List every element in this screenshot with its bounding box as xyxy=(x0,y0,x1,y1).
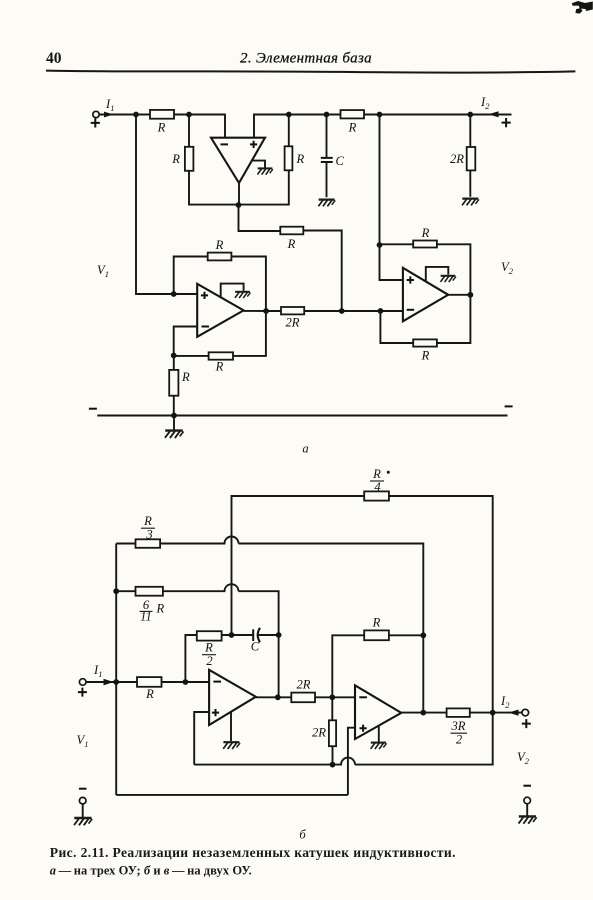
svg-text:R: R xyxy=(156,602,165,616)
wire: U5 + input down to V1 rail (crosses sense line) xyxy=(348,728,355,795)
node: U1 output junction xyxy=(236,202,242,208)
svg-text:R: R xyxy=(215,238,224,252)
node: U5 output junction xyxy=(420,710,426,716)
terminal I2 (circle) xyxy=(522,709,529,716)
svg-text:R: R xyxy=(181,370,190,384)
svg-text:C: C xyxy=(251,640,260,654)
svg-text:R: R xyxy=(372,616,381,630)
wire: U2 positive feedback branch (up and over) xyxy=(174,257,208,295)
svg-text:3R: 3R xyxy=(451,719,466,733)
U1 non-inverting input mark xyxy=(250,141,257,148)
wire: top feedback R to U3 output xyxy=(437,244,471,294)
wire: U4 output to 2R xyxy=(256,696,291,698)
resistor R/4 (horizontal) xyxy=(364,491,389,500)
ground (capacitor C) xyxy=(318,200,335,207)
wire: top-left rail from I1 to op-amp U1 inverting riser xyxy=(99,115,225,139)
node: U3 + feedback junction xyxy=(377,242,383,248)
node: junction I1 / left rail xyxy=(113,679,119,685)
plus sign at I2 xyxy=(502,118,511,127)
node: junction x=288.8 xyxy=(286,112,292,118)
wire: bottom feedback R to U2 output xyxy=(233,311,266,356)
resistor 2R (between U2 and U3) xyxy=(281,307,304,314)
node: bottom rail junction xyxy=(171,413,177,419)
svg-text:2R: 2R xyxy=(286,316,300,330)
current arrow I2 (pointing left) xyxy=(509,710,519,716)
wire: right reference ground stem xyxy=(526,804,528,816)
resistor R (right vertical leg of U1) xyxy=(239,115,293,205)
wire: U4 ground stem xyxy=(230,712,232,741)
wire: right top rail segment from U1 + riser to I2 xyxy=(254,115,512,139)
node: junction feedback R / R-3 branch xyxy=(420,632,426,638)
resistor R/2 (horizontal) xyxy=(197,631,222,640)
resistor 3R/2 (horizontal) xyxy=(447,708,470,717)
resistor 2R (top right, vertical to ground) xyxy=(467,115,476,197)
wire: series R to 2R net xyxy=(303,231,341,312)
U3 non-inverting input mark xyxy=(407,276,414,283)
ground (U1 non-inverting) xyxy=(257,168,272,174)
op-amp U1 (triangle pointing down) xyxy=(211,138,265,183)
wire: junction down to U5 output xyxy=(422,635,424,712)
resistor 2R (horizontal, between U4 and U5) xyxy=(291,693,315,703)
wire: R/4 rail (center tap up, across, down to I2 node) xyxy=(232,496,493,713)
wire: top rail branch down to U3 xyxy=(379,115,381,246)
svg-text:R: R xyxy=(215,360,224,374)
wire: U1 output through R to mid node xyxy=(239,205,281,231)
terminal I1 (circle) xyxy=(79,679,86,686)
resistor R (U3 feedback, bottom) xyxy=(413,339,437,346)
wire: U2 inverting input down to feedback node xyxy=(174,327,198,356)
terminal: right reference (circle) xyxy=(524,797,531,804)
wire: bottom V1 rail xyxy=(116,794,348,796)
svg-text:R: R xyxy=(421,349,430,363)
node: junction C / (6/11)R / U4 output xyxy=(276,632,282,638)
wire: R/2 to capacitor xyxy=(222,634,253,636)
wire: long left branch from top rail to U2 + input xyxy=(136,115,197,295)
wire: bottom feedback R to U3 output xyxy=(437,295,471,343)
capacitor C (series) xyxy=(253,628,260,642)
svg-text:R: R xyxy=(143,514,152,528)
plus sign at I2 xyxy=(522,719,531,728)
U5 inverting input mark xyxy=(359,696,367,698)
wire: U3 ground lead xyxy=(426,267,449,282)
svg-text:40: 40 xyxy=(46,50,62,67)
ground (2R) xyxy=(462,199,479,206)
wire: R/3 branch with hop over center rail xyxy=(116,537,423,636)
minus tick left end of bottom rail xyxy=(89,408,97,410)
svg-text:R: R xyxy=(157,121,166,135)
wire: top feedback R to U2 output xyxy=(231,257,266,312)
U2 non-inverting input mark xyxy=(201,292,208,299)
resistor (6/11)R (horizontal) xyxy=(136,587,163,596)
resistor R (U1 output series) xyxy=(280,227,303,235)
wire: bottom rail ground stem xyxy=(173,416,175,430)
node: U3 output junction xyxy=(468,292,474,298)
node: junction x=380.4 xyxy=(378,308,384,314)
node: U2 + input junction xyxy=(171,291,177,297)
svg-text:2: 2 xyxy=(456,733,463,747)
capacitor C (to ground) xyxy=(321,115,333,198)
wire: U5 ground stem xyxy=(378,726,380,741)
minus tick left reference terminal xyxy=(79,788,87,790)
resistor R (input series, horizontal) xyxy=(137,677,162,687)
wire: capacitor to junction xyxy=(259,634,279,636)
svg-text:Рис. 2.11. Реализации незаземл: Рис. 2.11. Реализации незаземленных кату… xyxy=(50,845,456,860)
resistor 2R (vertical, between op-amps) xyxy=(329,697,336,764)
wire: U3 bottom feedback from inverting net xyxy=(380,311,413,343)
svg-text:2R: 2R xyxy=(312,726,326,740)
wire: U1 + input to ground xyxy=(252,161,265,168)
resistor R/3 (horizontal) xyxy=(136,539,161,548)
wire: U5 feedback branch up xyxy=(332,635,364,697)
svg-text:R: R xyxy=(421,226,430,240)
svg-text:а: а xyxy=(302,442,308,456)
node: junction on top rail at x=136 xyxy=(133,112,139,118)
ground (U3) xyxy=(440,276,455,282)
terminal I1 (circle) xyxy=(93,111,99,117)
value label R/2 xyxy=(202,641,216,669)
resistor R (vertical, to bottom rail) xyxy=(169,356,178,416)
node: junction x=470.3 xyxy=(467,112,473,118)
node: U2 output junction xyxy=(263,308,269,314)
svg-text:3: 3 xyxy=(145,528,152,542)
svg-text:R: R xyxy=(348,121,357,135)
value label (6/11)R xyxy=(140,598,165,624)
svg-text:R: R xyxy=(171,152,180,166)
value label R/4 with stray dot xyxy=(370,467,390,494)
wire: bottom common rail xyxy=(97,415,507,417)
node: junction center rail / R-C xyxy=(229,632,235,638)
wire: junction to U3 non-inverting input xyxy=(380,245,403,280)
minus tick right end of bottom rail xyxy=(505,405,513,407)
plus sign at input I1 xyxy=(91,118,100,127)
resistor R (left vertical leg of U1) xyxy=(185,115,239,205)
svg-text:R: R xyxy=(204,641,213,655)
wire: U5 output to 3R/2 xyxy=(401,712,446,714)
wire: I1 to U4 inverting input xyxy=(86,681,209,683)
resistor R (U3 feedback, top) xyxy=(413,241,437,248)
plus sign at I1 xyxy=(78,688,87,697)
current arrow I1 xyxy=(104,112,114,118)
ground (right reference) xyxy=(519,816,537,823)
wire: 2R to U5 inverting input xyxy=(315,696,355,698)
svg-text:2R: 2R xyxy=(450,152,464,166)
ink blob artifact top-right corner xyxy=(572,1,593,14)
value label 3R/2 xyxy=(451,719,468,747)
wire: 3R/2 to terminal I2 xyxy=(470,712,522,714)
wire: 2R to U3 inverting input xyxy=(304,310,403,312)
node: junction I2 / R-4 rail / sense line xyxy=(490,710,496,716)
svg-text:2R: 2R xyxy=(297,678,311,692)
current arrow I1 xyxy=(104,679,114,686)
resistor R (top-left, horizontal) xyxy=(150,110,174,119)
wire: R/2 branch from U4 inverting node xyxy=(185,635,196,682)
wire: left rail of circuit b xyxy=(115,544,117,796)
current arrow I2 (pointing left) xyxy=(489,111,499,117)
wire: (6/11)R branch with hop, down to U4 output net xyxy=(116,584,278,635)
U1 inverting input mark xyxy=(221,143,229,145)
svg-text:R: R xyxy=(296,152,305,166)
wire: U2 ground lead xyxy=(221,284,244,297)
ground (U2) xyxy=(235,292,250,298)
wire: V1 sense line with hop over U5 + riser xyxy=(194,713,493,765)
U4 inverting input mark xyxy=(213,681,221,683)
wire: left reference ground stem xyxy=(82,804,84,817)
ground (U5) xyxy=(371,743,387,749)
wire: U4 + input down to V1 sense line xyxy=(194,712,209,765)
wire: bottom feedback to R xyxy=(174,355,209,357)
wire: U1 output to bottom junction xyxy=(238,182,240,205)
resistor R (U5 feedback, horizontal) xyxy=(364,630,389,640)
node: junction x=379.5 xyxy=(377,112,383,118)
U2 inverting input mark xyxy=(202,326,210,328)
U5 non-inverting input mark xyxy=(360,725,367,732)
wire: U3 output xyxy=(448,294,470,296)
node: junction on left rail ((6/11)R tap) xyxy=(113,588,119,594)
svg-text:C: C xyxy=(336,154,345,168)
resistor R (U2 feedback, bottom) xyxy=(209,352,233,359)
node: U4 output junction xyxy=(275,694,281,700)
svg-text:R: R xyxy=(145,687,154,701)
minus tick right reference terminal xyxy=(523,785,531,787)
op-amp U2 (triangle pointing right) xyxy=(197,284,243,337)
svg-text:а — на трех ОУ; б и в — на дву: а — на трех ОУ; б и в — на двух ОУ. xyxy=(50,864,252,878)
svg-text:2. Элементная база: 2. Элементная база xyxy=(240,51,372,67)
terminal: left reference (circle) xyxy=(79,797,86,804)
node: junction at x=189 on top rail xyxy=(186,112,192,118)
resistor R (U2 feedback, top) xyxy=(208,253,232,261)
node: junction 2R / feedback R / vertical 2R xyxy=(329,694,335,700)
op-amp U4 (triangle pointing right) xyxy=(209,670,256,725)
header rule xyxy=(46,71,575,73)
wire: junction to U3 top feedback R xyxy=(380,243,414,245)
svg-text:б: б xyxy=(299,828,306,842)
wire: feedback R to R/3 rail junction xyxy=(389,634,423,636)
wire: junction down to U4 output xyxy=(278,635,280,697)
node: junction vertical 2R / sense line xyxy=(330,762,336,768)
U3 inverting input mark xyxy=(407,309,415,311)
wire: U2 output xyxy=(244,310,281,312)
svg-text:R: R xyxy=(372,467,381,481)
svg-text:11: 11 xyxy=(140,609,152,623)
node: junction x=341.7 xyxy=(339,308,345,314)
svg-text:R: R xyxy=(287,237,296,251)
value label R/3 xyxy=(141,514,155,542)
svg-text:4: 4 xyxy=(374,480,381,494)
ground (bottom rail) xyxy=(165,431,183,438)
node: U2 feedback bottom junction xyxy=(171,353,177,359)
node: junction x=326.5 (capacitor tap) xyxy=(324,112,330,118)
op-amp U3 (triangle pointing right) xyxy=(403,268,448,321)
svg-text:2: 2 xyxy=(206,654,213,668)
ground (U4) xyxy=(223,742,240,749)
resistor R (top-middle, horizontal) xyxy=(341,110,365,118)
op-amp U5 (triangle pointing right) xyxy=(355,685,401,739)
ground (left reference) xyxy=(74,818,92,825)
U4 non-inverting input mark xyxy=(212,709,219,716)
node: junction R / R-2 branch xyxy=(183,679,189,685)
